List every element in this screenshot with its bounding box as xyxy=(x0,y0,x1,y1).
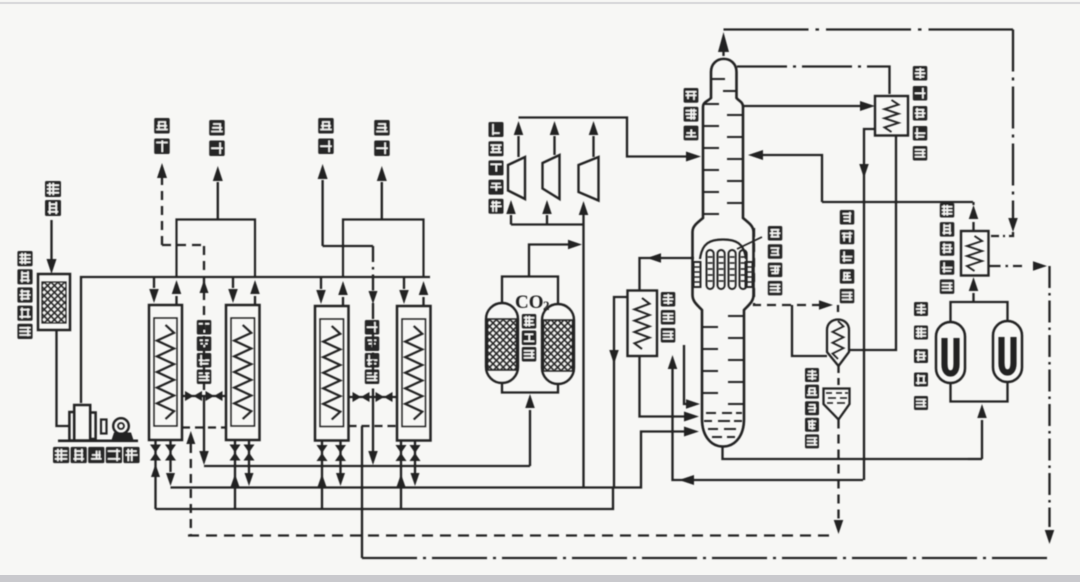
R3 bottom right valve and drop to bus B xyxy=(335,441,346,487)
product box 1 over oxygen regenerators xyxy=(177,220,256,277)
air subcooler bottom riser from filter frame xyxy=(969,277,979,302)
liquid withdraw line with up arrow below liquefier label xyxy=(668,355,863,485)
bus B header to liquefier circuit xyxy=(171,427,700,488)
R3 bottom left valve and line to bus D xyxy=(317,441,328,510)
wire pure nitrogen jog in box 2 xyxy=(323,245,373,247)
label distillation column xyxy=(684,88,699,140)
condenser drain dashed to separator xyxy=(837,366,839,388)
air filter F1 (kong qi guo lv qi) xyxy=(38,274,70,330)
label turbo expander (tou ping peng zhang ji) xyxy=(489,122,504,214)
label pure oxygen (chun yang) xyxy=(154,118,170,154)
wire oxygen dashed jog in box 1 xyxy=(162,244,204,246)
column trays upper section xyxy=(703,79,743,214)
oxygen regenerator column R1 xyxy=(149,305,182,440)
nitrogen center line dash-dot with down arrow xyxy=(369,246,378,397)
pure nitrogen outlet arrow xyxy=(318,164,328,246)
drain from nitrogen pair down to dash-dot bus F xyxy=(361,426,363,558)
CO2 adsorber vessel V1 xyxy=(486,303,518,383)
air feed drop into R2 xyxy=(228,277,238,303)
oxygen pair inner bottom dashed connector xyxy=(182,426,226,428)
scan border line top edge xyxy=(0,2,1080,4)
R4 bottom right valve and drop to bus B xyxy=(410,441,421,487)
label liquid nitrogen subcooler xyxy=(913,66,928,161)
liquid air filter top frame xyxy=(951,302,1008,322)
T3 suction riser xyxy=(579,201,589,225)
wire air inlet arrow into filter xyxy=(47,220,57,274)
dash-dot jog into air subcooler right side xyxy=(989,232,1014,236)
product riser from R2 into box 1 xyxy=(250,280,260,305)
T1 discharge riser xyxy=(514,121,524,157)
label nitrogen regenerator (dan xu leng qi) xyxy=(365,320,380,384)
nitrogen pair valve crossover line xyxy=(349,392,398,402)
condenser left tap line xyxy=(792,305,827,356)
dashed feed from column bulge to auxiliary condenser xyxy=(754,228,838,316)
label waste nitrogen 1 (wu dan) xyxy=(209,120,225,156)
T1 suction riser xyxy=(506,200,516,225)
air compressor K1 body xyxy=(69,405,95,441)
label air filter xyxy=(17,251,32,339)
svg-text:2: 2 xyxy=(543,298,550,313)
liquid air filter vessel V5 xyxy=(993,321,1022,382)
liquid air filter vessel V4 xyxy=(936,322,965,383)
dash-dot branch into liquid nitrogen subcooler xyxy=(737,67,890,97)
label waste nitrogen 2 (wu dan) xyxy=(374,120,390,156)
label main vaporizer (zhu zheng fa qi) with pointer xyxy=(737,226,782,295)
oxygen regenerator column R2 xyxy=(226,305,260,440)
air subcooler E4 xyxy=(961,231,989,276)
label air (kong qi) xyxy=(45,181,61,216)
T2 discharge riser xyxy=(550,121,560,155)
dashed drain from oxygen pair to dashed bus E xyxy=(186,431,195,535)
product box 2 over nitrogen regenerators xyxy=(343,220,424,277)
main vaporizer hatched tubes xyxy=(694,250,753,289)
label liquid air filter (ye kong guo lv qi) xyxy=(914,302,928,410)
waste nitrogen outlet arrow 1 xyxy=(213,166,223,219)
R2 bottom right valve and drop to bus B xyxy=(244,440,255,486)
bottom grey band xyxy=(0,575,1080,582)
nitrogen pair inner bottom connector xyxy=(349,425,398,427)
waste nitrogen outlet arrow 2 xyxy=(377,166,387,219)
CO2 outlet to expander feed line xyxy=(529,240,582,277)
filter inlet riser from column drain line xyxy=(968,404,987,459)
T3 discharge riser xyxy=(589,121,599,157)
expander feed line down to bus B xyxy=(582,225,584,488)
label pure nitrogen (chun dan) xyxy=(318,118,334,154)
turbo expander T3 xyxy=(579,157,599,201)
liquefier left riser from bus D xyxy=(609,297,627,488)
pure oxygen outlet dashed arrow xyxy=(157,163,167,245)
nitrogen center line lower segment to bus A xyxy=(368,397,378,465)
nitrogen regenerator column R4 xyxy=(397,306,431,441)
column sump liquid hatching xyxy=(704,413,742,437)
T2 suction riser xyxy=(542,200,552,225)
reflux return line into column with left arrow xyxy=(748,150,822,202)
air subcooler top riser with up arrow xyxy=(969,202,979,231)
label air compressor xyxy=(53,447,140,463)
dash-dot nitrogen line across top xyxy=(724,30,1018,233)
label oxygen regenerator (yang xu leng qi) xyxy=(197,320,212,384)
auxiliary condenser E3 vessel xyxy=(827,320,849,367)
liquefier E1 (ye hua qi) xyxy=(628,291,658,357)
R2 bottom left valve and line to bus D xyxy=(230,440,241,509)
CO2 adsorber bottom frame xyxy=(502,383,558,393)
R1 bottom right valve and drop to bus B xyxy=(165,440,176,486)
R1 bottom left valve and line to bus D xyxy=(150,440,161,509)
product riser from R1 into box 1 xyxy=(172,280,182,305)
label CO2 adsorber (xi fu qi) xyxy=(522,314,537,362)
label CO2 xyxy=(515,292,550,313)
column trays lower section xyxy=(702,316,744,404)
feed arrow into liquid nitrogen subcooler xyxy=(743,101,875,111)
liquid separator V3 (ye ti fen li qi) xyxy=(824,389,850,420)
bus A cold end header xyxy=(204,465,530,467)
oxygen pair valve crossover line xyxy=(182,391,226,401)
air feed drop into R1 xyxy=(149,277,159,303)
label liquid separator xyxy=(805,368,819,448)
subcooler bottom line to auxiliary condenser xyxy=(849,136,896,351)
turbo expander T2 xyxy=(543,155,560,199)
separator drain dashed down to bus E xyxy=(834,420,844,535)
bus D header to liquefier riser xyxy=(156,488,614,509)
R4 bottom left valve and line to bus D xyxy=(396,441,407,510)
air feed drop into R3 xyxy=(316,277,326,304)
liquid nitrogen subcooler E2 xyxy=(875,96,908,136)
subcooler left tap down line xyxy=(859,129,875,480)
wire compressor riser and main air header xyxy=(81,277,430,403)
liquefier top line to column with left arrow xyxy=(640,253,695,290)
CO2 adsorber top frame xyxy=(502,277,558,305)
dashed bus E xyxy=(188,534,836,536)
label air subcooler (kong qi guo leng qi) xyxy=(940,203,955,294)
CO2 adsorber vessel V2 xyxy=(542,304,574,384)
oxygen center line lower segment to bus A xyxy=(199,396,209,465)
CO2 feed from bus A with up arrow xyxy=(525,394,535,466)
wire filter to compressor xyxy=(57,330,70,426)
label auxiliary condenser (fu zhu leng ning qi) xyxy=(840,210,855,303)
dash-dot bus F xyxy=(362,557,1050,559)
product riser from R4 into box 2 xyxy=(419,281,429,306)
air compressor motor xyxy=(101,418,134,440)
evaporator drain to column bottom xyxy=(684,345,700,409)
compressor base line xyxy=(58,439,138,442)
nitrogen regenerator column R3 xyxy=(315,306,349,441)
main vaporizer dome arc xyxy=(700,240,746,260)
column bottom drain to liquid air filter xyxy=(723,447,969,460)
oxygen center line dashed with up arrow xyxy=(200,246,209,396)
distillation column shell (jing liu ta) xyxy=(693,59,754,447)
product riser from R3 into box 2 xyxy=(338,281,348,306)
svg-text:CO: CO xyxy=(515,292,544,313)
liquefier bottom line to column xyxy=(640,356,700,422)
liquid air filter bottom frame xyxy=(951,382,1008,402)
line from air subcooler top to reflux corner xyxy=(822,201,973,203)
dash-dot outlet from air subcooler to right edge drop xyxy=(989,261,1055,544)
expander suction manifold xyxy=(511,223,584,225)
expander discharge collector to column xyxy=(519,118,702,162)
label liquefier xyxy=(661,292,676,343)
turbo expander T1 xyxy=(508,157,525,199)
column top riser with up arrow xyxy=(718,32,729,56)
air feed drop into R4 xyxy=(399,277,409,304)
